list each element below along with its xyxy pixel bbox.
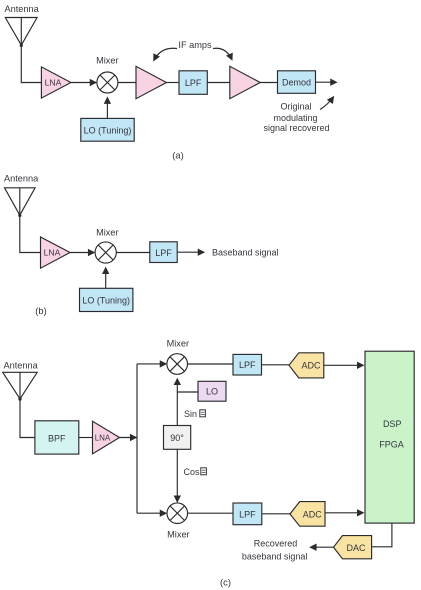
svg-text:DSP: DSP (383, 419, 402, 429)
svg-text:90°: 90° (170, 433, 184, 443)
arrow 90 block down to mixer Q (c) (176, 449, 178, 502)
svg-text:(c): (c) (220, 577, 231, 588)
label Mixer Q (c) (167, 529, 189, 539)
svg-text:LNA: LNA (45, 78, 62, 88)
phase shifter 90 (c) (164, 426, 191, 450)
arrow ADC Q to DSP (c) (325, 512, 363, 514)
wire mixer I to LPF (c) (188, 363, 234, 365)
filter LPF Q (c) (233, 503, 262, 525)
filter LPF I (c) (233, 354, 262, 375)
mixer (b) (95, 242, 116, 263)
label Antenna (a) (5, 4, 40, 14)
wire mixer to IF amp 1 (a) (118, 82, 136, 84)
diagonal arrow recovered signal (a) (320, 97, 334, 110)
wire DSP to DAC (c) (372, 523, 392, 547)
label IF amps (a) (178, 40, 212, 50)
arrow LO to mixer (b) (105, 268, 107, 289)
svg-text:Antenna: Antenna (4, 360, 39, 370)
wire LPF to IF amp 2 (a) (207, 82, 230, 84)
label Recovered baseband signal (c) (242, 538, 308, 561)
svg-text:LO (Tuning): LO (Tuning) (84, 125, 132, 135)
svg-text:FPGA: FPGA (379, 440, 404, 450)
wire LNA to mixer with arrow (b) (70, 252, 94, 254)
amplifier LNA (c) (93, 421, 120, 454)
svg-text:(b): (b) (35, 305, 46, 316)
svg-text:Original: Original (280, 102, 311, 112)
curved arrow to IF amp 1 (a) (154, 48, 177, 60)
svg-text:Mixer: Mixer (167, 529, 189, 539)
svg-text:Demod: Demod (282, 78, 311, 88)
label Original modulating signal recovered (a) (263, 102, 329, 134)
label Baseband signal (b) (212, 248, 279, 258)
IF amplifier 2 (a) (230, 66, 260, 98)
svg-text:LPF: LPF (239, 360, 256, 370)
svg-text:IF amps: IF amps (178, 40, 212, 50)
arrow LPF to baseband output (b) (177, 251, 204, 253)
svg-text:Antenna: Antenna (5, 4, 40, 14)
svg-text:LPF: LPF (155, 248, 172, 258)
svg-text:ADC: ADC (303, 509, 323, 519)
svg-text:ADC: ADC (301, 361, 321, 371)
label Sin theta (c) (184, 409, 205, 419)
caption (c) (220, 577, 231, 588)
svg-text:Sin: Sin (184, 409, 197, 419)
wire IF amp 1 to LPF (a) (166, 82, 179, 84)
curved arrow to IF amp 2 (a) (213, 48, 232, 60)
svg-text:LO (Tuning): LO (Tuning) (82, 296, 130, 306)
label Cos theta (c) (184, 467, 207, 477)
svg-text:LPF: LPF (185, 78, 202, 88)
arrow LNA to splitter (c) (120, 437, 137, 439)
wire antenna to LNA (b) (20, 215, 41, 252)
oscillator LO (Tuning) (b) (80, 288, 133, 311)
caption (a) (172, 150, 183, 161)
svg-text:Antenna: Antenna (4, 173, 39, 183)
block DSP FPGA (c) (365, 351, 414, 523)
wire junction down to 90 block (c) (176, 392, 178, 426)
svg-text:LNA: LNA (95, 433, 111, 442)
antenna symbol (b) (5, 188, 36, 217)
svg-text:modulating: modulating (273, 113, 317, 123)
wire mixer to LPF (b) (116, 252, 150, 254)
mixer I (c) (167, 354, 188, 375)
filter LPF (a) (179, 71, 207, 95)
antenna symbol (c) (3, 372, 38, 400)
splitter wire vertical (c) (136, 364, 138, 513)
arrow splitter to mixer I (c) (137, 363, 166, 365)
svg-text:LPF: LPF (239, 509, 256, 519)
arrow ADC I to DSP (c) (324, 364, 364, 366)
svg-text:Mixer: Mixer (167, 338, 189, 348)
wire antenna to LNA (a) (21, 45, 41, 82)
label Mixer (a) (96, 56, 118, 66)
label Antenna (c) (4, 360, 39, 370)
svg-text:BPF: BPF (48, 433, 66, 443)
svg-text:baseband signal: baseband signal (242, 551, 308, 561)
mixer Q (c) (167, 503, 188, 524)
wire mixer Q to LPF (c) (188, 512, 233, 514)
oscillator LO (c) (198, 381, 226, 401)
caption (b) (35, 305, 46, 316)
arrow DAC to recovered signal (c) (310, 546, 333, 548)
converter ADC Q (c) (290, 502, 325, 527)
svg-text:LNA: LNA (44, 248, 61, 258)
amplifier LNA (a) (41, 67, 71, 98)
block Demod (a) (278, 71, 316, 94)
svg-text:LO: LO (206, 387, 218, 397)
oscillator LO (Tuning) (a) (81, 118, 134, 141)
svg-text:Mixer: Mixer (96, 56, 118, 66)
IF amplifier 1 (a) (136, 66, 166, 98)
mixer (a) (97, 72, 118, 93)
amplifier LNA (b) (41, 237, 71, 268)
converter ADC I (c) (289, 353, 324, 378)
filter LPF (b) (150, 242, 177, 263)
wire IF amp 2 to Demod (a) (260, 82, 277, 84)
arrow splitter to mixer Q (c) (137, 512, 166, 514)
svg-text:Mixer: Mixer (96, 227, 118, 237)
output arrow (a) (316, 81, 337, 83)
wire antenna to BPF (c) (20, 399, 35, 437)
converter DAC (c) (334, 536, 372, 559)
wire LPF to ADC I (c) (262, 364, 290, 366)
svg-text:Baseband signal: Baseband signal (212, 248, 279, 258)
svg-text:(a): (a) (172, 150, 183, 161)
wire LNA to mixer with arrow (a) (71, 82, 96, 84)
svg-text:Recovered: Recovered (254, 538, 298, 548)
filter BPF (c) (35, 421, 79, 454)
svg-text:Cos: Cos (184, 467, 201, 477)
label Antenna (b) (4, 173, 39, 183)
svg-text:DAC: DAC (346, 543, 366, 553)
arrow phase line up to mixer I (c) (176, 379, 178, 392)
label Mixer I (c) (167, 338, 189, 348)
wire BPF to LNA (c) (79, 437, 93, 439)
wire LPF to ADC Q (c) (262, 513, 290, 515)
svg-text:signal recovered: signal recovered (263, 123, 329, 133)
antenna symbol (a) (5, 18, 37, 48)
arrow LO to mixer (a) (106, 98, 108, 119)
label Mixer (b) (96, 227, 118, 237)
wire LO to phase line (c) (177, 391, 198, 393)
